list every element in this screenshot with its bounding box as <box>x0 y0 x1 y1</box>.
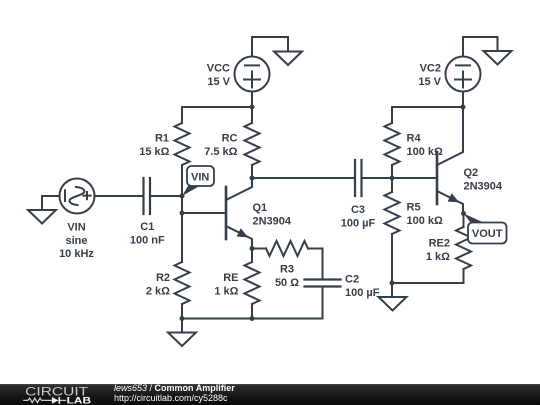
wire VCC to ground <box>252 36 288 38</box>
svg-text:VOUT: VOUT <box>472 228 503 240</box>
junction ground rail right <box>390 281 395 286</box>
wire base Q1 <box>182 212 226 214</box>
junction rail R2 <box>180 316 185 321</box>
voltage source VIN (sine) <box>60 179 95 214</box>
svg-text:15 V: 15 V <box>418 76 441 88</box>
voltage source VCC <box>235 37 270 107</box>
junction VC2 rail <box>461 105 466 110</box>
resistor RE2 <box>456 214 471 284</box>
svg-text:R5: R5 <box>407 201 421 213</box>
resistor RE <box>245 249 260 319</box>
wire bottom rail right <box>392 282 464 284</box>
resistor R1 <box>175 123 190 196</box>
CircuitLab logo <box>20 384 105 405</box>
wire collector node to C3 <box>252 177 355 179</box>
svg-text:RE: RE <box>223 272 238 284</box>
svg-text:Q1: Q1 <box>253 202 268 214</box>
voltage source VC2 <box>446 37 481 107</box>
svg-text:50 Ω: 50 Ω <box>275 277 299 289</box>
top rail left <box>182 107 252 123</box>
svg-text:10 kHz: 10 kHz <box>59 248 94 260</box>
wire VC2 node to collector Q2 <box>462 107 464 143</box>
ground (VCC) <box>274 37 302 65</box>
resistor R3 <box>252 241 323 256</box>
svg-text:Q2: Q2 <box>464 167 479 179</box>
ground (bottom right) <box>379 283 407 311</box>
svg-text:100 kΩ: 100 kΩ <box>407 146 444 158</box>
svg-text:2 kΩ: 2 kΩ <box>146 286 170 298</box>
resistor R4 <box>385 123 400 178</box>
svg-text:VC2: VC2 <box>420 63 441 75</box>
svg-text:2N3904: 2N3904 <box>464 180 503 192</box>
svg-text:15 kΩ: 15 kΩ <box>139 146 169 158</box>
svg-text:15 V: 15 V <box>207 76 230 88</box>
wire VC2 to ground <box>463 36 498 38</box>
svg-text:sine: sine <box>65 235 87 247</box>
junction collector Q1 <box>250 176 255 181</box>
ground (VC2) <box>484 37 512 65</box>
node VOUT junction <box>461 211 466 216</box>
svg-text:100 nF: 100 nF <box>130 234 165 246</box>
svg-text:VCC: VCC <box>207 63 230 75</box>
svg-text:C1: C1 <box>140 221 154 233</box>
capacitor C2 <box>305 249 341 319</box>
svg-text:1 kΩ: 1 kΩ <box>426 251 450 263</box>
svg-text:LAB: LAB <box>67 395 91 405</box>
svg-text:RE2: RE2 <box>429 237 450 249</box>
wire C3 to node <box>362 177 393 179</box>
top rail right <box>392 107 463 123</box>
svg-text:1 kΩ: 1 kΩ <box>214 286 238 298</box>
ground (bottom left) <box>168 319 196 347</box>
node VOUT flag <box>464 214 507 244</box>
junction VCC rail <box>250 105 255 110</box>
junction emitter Q1 <box>250 246 255 251</box>
svg-text:7.5 kΩ: 7.5 kΩ <box>204 146 237 158</box>
svg-text:C2: C2 <box>345 273 359 285</box>
svg-text:R3: R3 <box>280 263 294 275</box>
svg-text:VIN: VIN <box>191 172 209 184</box>
wire C1 to node VIN <box>150 195 182 197</box>
node VIN flag <box>182 166 214 196</box>
transistor Q1 <box>226 178 252 249</box>
transistor Q2 <box>437 143 463 214</box>
junction base Q1 <box>180 211 185 216</box>
capacitor C1 <box>144 178 151 214</box>
svg-text:100 µF: 100 µF <box>341 217 376 229</box>
footer text <box>114 384 235 403</box>
svg-text:RC: RC <box>222 132 238 144</box>
svg-text:R1: R1 <box>155 132 169 144</box>
wire vertical left column <box>181 196 183 262</box>
wire node to base Q2 <box>392 177 437 179</box>
wire bottom rail left <box>182 318 323 320</box>
svg-text:R4: R4 <box>407 132 422 144</box>
wire VIN to C1 <box>95 195 144 197</box>
svg-text:100 kΩ: 100 kΩ <box>407 215 444 227</box>
resistor R5 <box>385 178 400 283</box>
footer bar <box>0 384 540 405</box>
resistor RC <box>245 107 260 178</box>
junction C3/R5/base Q2 <box>390 176 395 181</box>
ground (VIN source) <box>28 196 60 224</box>
resistor R2 <box>175 262 190 319</box>
svg-text:2N3904: 2N3904 <box>253 215 292 227</box>
junction rail RE <box>250 316 255 321</box>
svg-text:C3: C3 <box>351 204 365 216</box>
svg-text:R2: R2 <box>156 272 170 284</box>
svg-text:100 µF: 100 µF <box>345 287 380 299</box>
capacitor C3 <box>355 160 362 196</box>
node VIN junction <box>180 194 185 199</box>
svg-text:VIN: VIN <box>67 222 85 234</box>
